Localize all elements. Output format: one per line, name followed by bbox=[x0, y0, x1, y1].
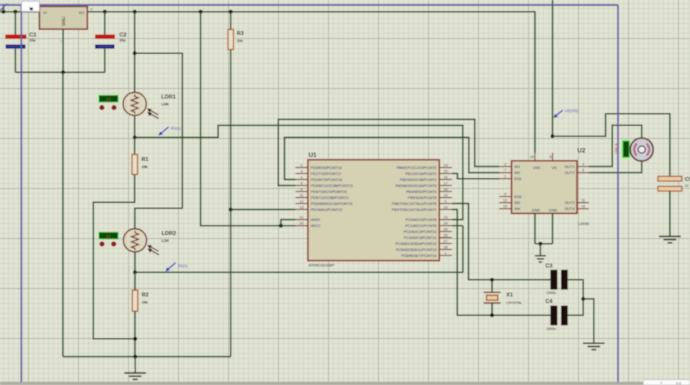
svg-text:PB4/MISO/PCINT4: PB4/MISO/PCINT4 bbox=[406, 190, 436, 194]
label C1 bbox=[29, 32, 37, 38]
LDR1 control dot right bbox=[112, 106, 116, 110]
wire AREF branch bbox=[281, 220, 296, 226]
svg-text:GND: GND bbox=[532, 209, 541, 213]
svg-text:3: 3 bbox=[301, 169, 303, 173]
svg-text:20: 20 bbox=[300, 222, 304, 226]
regulator label 7805 (rotated) bbox=[61, 16, 66, 27]
svg-text:10k: 10k bbox=[237, 39, 243, 43]
regulator label VI bbox=[43, 10, 47, 15]
svg-text:27: 27 bbox=[444, 239, 448, 243]
node R3 PD7 branch bbox=[229, 208, 233, 212]
svg-text:8: 8 bbox=[549, 155, 551, 159]
motor U2 load body bbox=[630, 138, 653, 161]
wire C3 right to join bbox=[568, 280, 584, 299]
wire crystal bottom stub bbox=[491, 303, 493, 315]
svg-text:PC0/ADC0/PCINT8: PC0/ADC0/PCINT8 bbox=[406, 218, 437, 222]
wire C1 top bbox=[14, 12, 16, 35]
svg-text:2: 2 bbox=[301, 163, 303, 167]
svg-text:PC5/ADC5/SCL/PCINT13: PC5/ADC5/SCL/PCINT13 bbox=[396, 248, 437, 252]
svg-text:PD1/TXD/PCINT17: PD1/TXD/PCINT17 bbox=[311, 172, 342, 176]
capacitor C1 positive plate bbox=[5, 35, 26, 40]
wire R1 to ground join bbox=[93, 175, 135, 339]
svg-text:C4: C4 bbox=[545, 299, 553, 305]
node VCC-C1 junction bbox=[14, 10, 18, 14]
net label R1(1) bbox=[171, 126, 181, 130]
motor speed indicator bbox=[621, 139, 631, 159]
svg-text:R2(1): R2(1) bbox=[178, 264, 188, 268]
label R2 bbox=[142, 293, 149, 299]
wire left ground drop bbox=[62, 72, 64, 356]
svg-text:R2: R2 bbox=[142, 293, 149, 299]
wire PB1 to EN1 bbox=[452, 174, 499, 179]
wire XTAL1 PB6 to crystal top bbox=[452, 204, 550, 280]
wire PC1 stub link bbox=[452, 225, 463, 227]
svg-text:1000u: 1000u bbox=[546, 327, 556, 331]
label C4 value 1000u bbox=[546, 327, 556, 331]
svg-text:R1: R1 bbox=[142, 157, 149, 163]
resistor R1 bbox=[132, 155, 138, 175]
label C2 value 10u bbox=[119, 39, 126, 43]
wire C5 to ground bbox=[669, 191, 671, 236]
LDR2 control dot left bbox=[100, 242, 104, 246]
svg-text:PC1/ADC1/PCINT9: PC1/ADC1/PCINT9 bbox=[406, 224, 437, 228]
window bottom strip bbox=[0, 382, 690, 385]
node AREF branch junction bbox=[279, 224, 283, 228]
svg-text:3: 3 bbox=[582, 162, 584, 166]
label C1 value 10u bbox=[29, 39, 36, 43]
ground symbol main bbox=[124, 357, 146, 380]
svg-text:VS: VS bbox=[551, 166, 557, 170]
svg-text:EN1: EN1 bbox=[514, 177, 521, 181]
wire VCC to R3 bbox=[230, 12, 232, 30]
svg-text:15: 15 bbox=[503, 205, 507, 209]
svg-text:PB7/TOSC2/XTAL2/PCINT7: PB7/TOSC2/XTAL2/PCINT7 bbox=[392, 208, 437, 212]
wire join to ground bbox=[583, 299, 594, 343]
svg-text:GND: GND bbox=[549, 209, 558, 213]
svg-text:L293D: L293D bbox=[578, 221, 590, 226]
svg-text:ATMEGA328P: ATMEGA328P bbox=[309, 262, 335, 267]
wire VS to C5 bbox=[553, 114, 670, 177]
node bottom rail ground junction bbox=[133, 355, 137, 359]
U1 label bbox=[309, 152, 318, 159]
wire label arrow U2(VS) bbox=[554, 110, 563, 117]
svg-text:1: 1 bbox=[29, 6, 31, 10]
svg-text:X1: X1 bbox=[506, 292, 513, 298]
regulator label VO bbox=[79, 10, 85, 15]
wire OUT1 to motor top bbox=[589, 125, 642, 166]
svg-text:CRYSTAL: CRYSTAL bbox=[506, 301, 522, 305]
svg-text:13: 13 bbox=[300, 205, 304, 209]
svg-text:12: 12 bbox=[300, 199, 304, 203]
node C3C4 join bbox=[581, 297, 585, 301]
svg-text:+: + bbox=[10, 35, 12, 39]
svg-text:PD7/AIN1/PCINT23: PD7/AIN1/PCINT23 bbox=[311, 208, 342, 212]
svg-text:VO: VO bbox=[79, 10, 85, 15]
capacitor C2 negative plate bbox=[95, 45, 114, 49]
svg-text:AVCC: AVCC bbox=[311, 224, 321, 228]
svg-text:C2: C2 bbox=[119, 32, 126, 38]
svg-text:OUT4: OUT4 bbox=[564, 207, 574, 211]
LDR1 brightness indicator bbox=[98, 95, 118, 103]
power terminal arrow (cut off) bbox=[0, 4, 7, 11]
label LDR2 type bbox=[162, 239, 170, 243]
wire VCC to LDR1 bbox=[134, 12, 136, 93]
svg-text:PB3/MOSI/OC2A/PCINT3: PB3/MOSI/OC2A/PCINT3 bbox=[396, 184, 437, 188]
wire corner stub up bbox=[3, 6, 5, 12]
svg-text:24: 24 bbox=[444, 222, 448, 226]
svg-text:U1: U1 bbox=[309, 152, 318, 159]
svg-text:PB0/ICP1/CLKO/PCINT0: PB0/ICP1/CLKO/PCINT0 bbox=[397, 166, 437, 170]
svg-text:23: 23 bbox=[444, 216, 448, 220]
node LDR1 divider junction bbox=[133, 136, 137, 140]
LDR2 light arrows bbox=[147, 245, 159, 255]
svg-text:26: 26 bbox=[444, 233, 448, 237]
node VCC-LDR1 junction bbox=[133, 10, 137, 14]
svg-text:10k: 10k bbox=[142, 301, 148, 305]
svg-text:IN1: IN1 bbox=[514, 165, 520, 169]
net label U2(VS) bbox=[565, 108, 579, 113]
svg-text:PD6/AIN0/OC2A/PCINT22: PD6/AIN0/OC2A/PCINT22 bbox=[311, 202, 353, 206]
net label R2(1) bbox=[178, 264, 188, 268]
wire LDR1 junction to R1 bbox=[134, 137, 136, 154]
wire OUT2 to motor bottom bbox=[589, 161, 642, 172]
svg-text:R3: R3 bbox=[237, 31, 244, 37]
node LDR1 feed branch bbox=[133, 51, 137, 55]
wire LDR2 junction to R2 bbox=[134, 272, 136, 290]
label LDR1 type bbox=[161, 103, 169, 107]
svg-text:PC2/ADC2/PCINT10: PC2/ADC2/PCINT10 bbox=[404, 230, 437, 234]
wire LDR2 feed branch bbox=[135, 53, 183, 228]
svg-text:28: 28 bbox=[444, 245, 448, 249]
wire R2 to bottom rail bbox=[134, 311, 136, 356]
label C5 (clipped) bbox=[685, 177, 690, 188]
U1 right pins PC0-PC6 with numbers bbox=[395, 216, 452, 258]
svg-text:2: 2 bbox=[90, 8, 92, 12]
LDR2 control dot right bbox=[112, 242, 116, 246]
resistor R3 bbox=[228, 30, 234, 50]
label CRYSTAL bbox=[506, 301, 522, 305]
svg-text:18: 18 bbox=[444, 187, 448, 191]
svg-text:10u: 10u bbox=[29, 39, 36, 43]
wire LDR1 signal to PC0 bbox=[135, 125, 463, 219]
node R1R2 join bbox=[133, 337, 137, 341]
pin number 2 (regulator VO) bbox=[90, 8, 92, 12]
svg-text:PC3/ADC3/PCINT11: PC3/ADC3/PCINT11 bbox=[404, 236, 437, 240]
wire LDR1 to junction bbox=[134, 116, 136, 138]
svg-text:9: 9 bbox=[504, 192, 506, 196]
sheet border right edge bbox=[617, 5, 619, 382]
wire label arrow R2(1) bbox=[166, 263, 176, 271]
svg-text:+: + bbox=[109, 35, 111, 39]
svg-text:IN4: IN4 bbox=[514, 207, 520, 211]
label C3 value 1000u bbox=[546, 291, 556, 295]
wire label arrow R1(1) bbox=[159, 127, 169, 135]
LDR1 light arrows bbox=[147, 109, 159, 119]
wire LDR2 to junction bbox=[134, 252, 136, 272]
wire PD2 to IN2 bbox=[285, 137, 500, 179]
wire C1 bottom bbox=[14, 49, 16, 73]
wire crystal top stub bbox=[491, 280, 493, 293]
capacitor C5 plates bbox=[658, 176, 682, 191]
photoresistor LDR2 body bbox=[123, 229, 146, 252]
microcontroller U1 body bbox=[308, 160, 439, 261]
U2 top pin VSS bbox=[530, 153, 541, 170]
svg-text:PD3/INT1/OC2B/PCINT19: PD3/INT1/OC2B/PCINT19 bbox=[311, 184, 353, 188]
svg-text:1000u: 1000u bbox=[546, 291, 556, 295]
tooltip box corner bbox=[643, 380, 690, 385]
capacitor C4 plates bbox=[550, 306, 567, 326]
U1 left pins AREF AVCC bbox=[295, 216, 321, 229]
svg-text:AREF: AREF bbox=[311, 218, 321, 222]
svg-text:C3: C3 bbox=[545, 263, 552, 269]
svg-text:PB2/SS/OC1B/PCINT2: PB2/SS/OC1B/PCINT2 bbox=[400, 178, 437, 182]
svg-text:2: 2 bbox=[504, 162, 506, 166]
U2 label bbox=[577, 148, 586, 155]
svg-text:10k: 10k bbox=[142, 165, 148, 169]
svg-text:C5: C5 bbox=[685, 177, 690, 183]
wire regulator ground rail bbox=[15, 71, 104, 73]
svg-text:15: 15 bbox=[444, 169, 448, 173]
wire VCC top rail right segment bbox=[87, 12, 535, 153]
resistor R2 bbox=[132, 290, 138, 311]
svg-text:LDR: LDR bbox=[162, 239, 170, 243]
svg-text:EN2: EN2 bbox=[514, 195, 521, 199]
capacitor C2 positive plate bbox=[95, 35, 115, 40]
label R1 bbox=[142, 157, 149, 163]
svg-text:11: 11 bbox=[300, 193, 304, 197]
svg-text:R1(1): R1(1) bbox=[171, 126, 181, 130]
svg-text:1: 1 bbox=[445, 251, 447, 255]
svg-text:11: 11 bbox=[581, 198, 585, 202]
wire bottom ground rail bbox=[63, 356, 231, 358]
svg-text:19: 19 bbox=[444, 193, 448, 197]
pin number 1 (regulator VI) bbox=[29, 6, 31, 10]
svg-text:U2(VS): U2(VS) bbox=[565, 108, 579, 113]
capacitor C3 plates bbox=[550, 270, 567, 290]
svg-text:OUT1: OUT1 bbox=[564, 165, 574, 169]
svg-text:16: 16 bbox=[530, 155, 534, 159]
svg-text:7: 7 bbox=[504, 168, 506, 172]
svg-text:1 0: 1 0 bbox=[106, 97, 111, 101]
svg-text:OUT3: OUT3 bbox=[564, 201, 574, 205]
svg-text:+: + bbox=[660, 381, 663, 385]
wire PD3 to IN1 bbox=[278, 119, 499, 185]
photoresistor LDR1 body bbox=[123, 92, 146, 115]
svg-text:6: 6 bbox=[301, 187, 303, 191]
svg-text:PD0/RXD/PCINT16: PD0/RXD/PCINT16 bbox=[311, 166, 342, 170]
wire VS supply from top bbox=[552, 0, 554, 136]
ground symbol U2 bbox=[535, 244, 546, 262]
U1 right pins PB0-PB7 with numbers bbox=[392, 163, 452, 211]
ground symbol C5 bbox=[659, 236, 681, 243]
U1 left pins PD0-PD7 with numbers bbox=[295, 163, 352, 211]
svg-text:21: 21 bbox=[300, 216, 304, 220]
svg-text:PC4/ADC4/SDA/PCINT12: PC4/ADC4/SDA/PCINT12 bbox=[395, 242, 436, 246]
label C4 bbox=[545, 299, 553, 305]
wire C2 top bbox=[104, 12, 106, 35]
LDR2 brightness indicator bbox=[98, 232, 118, 240]
svg-text:PD5/T1/OC0B/PCINT21: PD5/T1/OC0B/PCINT21 bbox=[311, 196, 349, 200]
LDR1 control dot left bbox=[100, 106, 104, 110]
U2 top pin VS bbox=[549, 153, 557, 170]
svg-text:14: 14 bbox=[581, 205, 585, 209]
svg-text:7805: 7805 bbox=[61, 16, 66, 27]
wire C2 bottom bbox=[104, 49, 106, 73]
svg-text:6: 6 bbox=[582, 168, 584, 172]
label C3 bbox=[545, 263, 552, 269]
svg-text:25: 25 bbox=[444, 227, 448, 231]
svg-text:IN3: IN3 bbox=[514, 201, 520, 205]
svg-text:10: 10 bbox=[503, 198, 507, 202]
U2 right pins OUT with numbers bbox=[564, 162, 588, 211]
svg-text:1: 1 bbox=[504, 175, 506, 179]
svg-text:VI: VI bbox=[43, 10, 47, 15]
svg-text:PD2/INT0/PCINT18: PD2/INT0/PCINT18 bbox=[311, 178, 342, 182]
svg-text:9: 9 bbox=[445, 199, 447, 203]
svg-text:4: 4 bbox=[301, 175, 303, 179]
node VCC-AVCC riser junction bbox=[199, 10, 203, 14]
svg-text:PB1/OC1A/PCINT1: PB1/OC1A/PCINT1 bbox=[406, 172, 437, 176]
node VCC-C2 junction bbox=[103, 10, 107, 14]
svg-text:16: 16 bbox=[444, 175, 448, 179]
annotation box bbox=[22, 1, 40, 11]
label R3 value 10k bbox=[237, 39, 243, 43]
regulator ground pin wire bbox=[62, 29, 64, 72]
label L293D bbox=[578, 221, 590, 226]
sheet border top edge bbox=[0, 4, 618, 6]
svg-text:LDR: LDR bbox=[161, 103, 169, 107]
label R1 value 10k bbox=[142, 165, 148, 169]
svg-text:10: 10 bbox=[685, 184, 689, 188]
label X1 bbox=[506, 292, 513, 298]
ground symbol crystal caps bbox=[583, 343, 605, 350]
svg-text:PD4/T0/XCK/PCINT20: PD4/T0/XCK/PCINT20 bbox=[311, 190, 347, 194]
label C2 bbox=[119, 32, 126, 38]
svg-text:10u: 10u bbox=[119, 39, 126, 43]
svg-text:LDR1: LDR1 bbox=[161, 95, 176, 101]
wire U2 gnd pins bbox=[535, 213, 553, 243]
wire C4 right to join bbox=[568, 299, 584, 315]
svg-text:10: 10 bbox=[444, 205, 448, 209]
svg-text:IN2: IN2 bbox=[514, 171, 520, 175]
label LDR1 bbox=[161, 95, 176, 101]
node LDR2 divider junction bbox=[133, 270, 137, 274]
voltage regulator 7805 body bbox=[39, 6, 87, 29]
node crystal top junction bbox=[490, 278, 494, 282]
label R2 value 10k bbox=[142, 301, 148, 305]
node U2 gnd junction bbox=[539, 242, 543, 246]
svg-text:PB5/SCK/PCINT5: PB5/SCK/PCINT5 bbox=[408, 196, 437, 200]
U2 bottom GND labels bbox=[532, 209, 558, 213]
label R3 bbox=[237, 31, 244, 37]
svg-text:PB6/TOSC1/XTAL1/PCINT6: PB6/TOSC1/XTAL1/PCINT6 bbox=[392, 202, 437, 206]
label ATMEGA328P bbox=[309, 262, 335, 267]
wire LDR2 signal to PC1 bbox=[135, 226, 463, 273]
node VS junction bbox=[551, 134, 555, 138]
capacitor C1 negative plate bbox=[6, 45, 26, 49]
label LDR2 bbox=[162, 231, 177, 237]
crystal X1 body bbox=[484, 292, 501, 303]
svg-text:+: + bbox=[99, 35, 101, 39]
svg-text:U2: U2 bbox=[577, 148, 586, 155]
svg-text:OUT2: OUT2 bbox=[564, 171, 574, 175]
node crystal bottom junction bbox=[490, 313, 494, 317]
node VCC-R3 junction bbox=[229, 10, 233, 14]
svg-text:1 0: 1 0 bbox=[106, 234, 111, 238]
svg-text:5: 5 bbox=[301, 181, 303, 185]
wire R3 branch to PD7 bbox=[231, 209, 296, 211]
motor driver U2 body bbox=[512, 161, 578, 214]
node regulator gnd rail junction bbox=[61, 70, 65, 74]
svg-text:PC6/RESET/PCINT14: PC6/RESET/PCINT14 bbox=[401, 254, 436, 258]
wire XTAL2 PB7 to crystal bottom bbox=[452, 210, 550, 316]
svg-text:VSS: VSS bbox=[533, 166, 541, 170]
wire R3 down to bottom rail bbox=[230, 50, 232, 357]
regulator pin3 tiny label bbox=[60, 39, 62, 43]
svg-text:C1: C1 bbox=[29, 32, 37, 38]
sheet border left edge bbox=[20, 5, 22, 382]
wire VCC to AVCC bbox=[201, 12, 296, 226]
node corner junction bbox=[2, 10, 6, 14]
svg-text:17: 17 bbox=[444, 181, 448, 185]
svg-text:LDR2: LDR2 bbox=[162, 231, 177, 237]
U2 left pins IN/EN with numbers bbox=[499, 162, 521, 211]
svg-text:0.0: 0.0 bbox=[676, 382, 681, 385]
wire VCC top rail left segment bbox=[0, 11, 40, 13]
motor rpm readout (rotated) bbox=[614, 143, 619, 155]
svg-text:14: 14 bbox=[444, 163, 448, 167]
